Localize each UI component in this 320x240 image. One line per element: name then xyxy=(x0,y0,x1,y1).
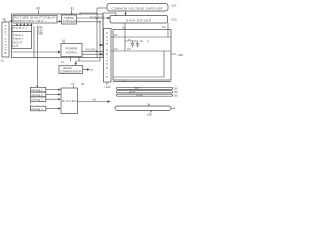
arrowhead gd upper branch xyxy=(101,44,104,46)
svg-text:R.A.B.C.I: R.A.B.C.I xyxy=(13,26,27,30)
svg-text:Vd: Vd xyxy=(93,97,97,101)
wire bus vertical x97 xyxy=(96,8,98,58)
svg-text:LUT: LUT xyxy=(13,44,19,48)
wire ps bottom stub a xyxy=(69,57,71,62)
gate driver box 140 xyxy=(104,29,112,83)
svg-text:GATE DRIVER IC: GATE DRIVER IC xyxy=(105,32,109,78)
wire bus vertical x103 xyxy=(102,13,104,29)
wire host to unit xyxy=(9,20,12,22)
junction dot 3 xyxy=(96,17,98,19)
arrowhead cvs to dd xyxy=(124,13,126,15)
svg-text:D1: D1 xyxy=(122,25,126,29)
outer timing controller board box xyxy=(12,14,104,58)
Dm line xyxy=(167,23,169,30)
driving n box xyxy=(31,106,46,111)
pixel tft xyxy=(125,40,133,42)
junction dot xyxy=(96,51,98,53)
power supply box 16 xyxy=(61,44,82,57)
pixel cap cst xyxy=(137,41,139,44)
svg-text:Driving 2: Driving 2 xyxy=(32,93,43,97)
timing controller box 41 xyxy=(62,15,77,24)
data line Dm inside xyxy=(167,30,169,38)
leader 70 xyxy=(73,86,75,89)
svg-text:SRC: SRC xyxy=(135,87,140,90)
svg-text:70: 70 xyxy=(71,82,75,86)
svg-text:~130: ~130 xyxy=(170,18,177,22)
arrowhead compensator out xyxy=(87,68,90,71)
svg-text:~140: ~140 xyxy=(104,85,111,89)
leader 20 xyxy=(4,20,6,22)
svg-text:Vc: Vc xyxy=(90,68,94,72)
wire ps bottom stub b xyxy=(78,57,80,62)
wire driving-n to summer xyxy=(46,108,60,110)
host system box 10 xyxy=(2,22,9,57)
wire to compensator xyxy=(76,61,100,65)
svg-text:41: 41 xyxy=(71,6,75,10)
picture quality improving unit box 4a xyxy=(13,15,57,23)
summer out arrow xyxy=(78,101,110,103)
driving 2 box xyxy=(31,92,46,97)
wire cvs to data driver xyxy=(125,11,127,15)
svg-text:20: 20 xyxy=(3,17,7,21)
wire h13 over to gate driver col xyxy=(103,12,116,14)
summer box 70 xyxy=(61,88,78,114)
svg-text:161: 161 xyxy=(174,87,179,91)
D1 line xyxy=(124,23,126,30)
svg-text:GATE: GATE xyxy=(136,94,143,97)
arrowheads driving to summer xyxy=(58,89,61,91)
svg-text:Driving 1: Driving 1 xyxy=(32,88,43,92)
panel box 150 xyxy=(113,30,171,81)
bar 3 xyxy=(117,94,173,96)
svg-text:CONTROLLER: CONTROLLER xyxy=(62,20,76,24)
svg-text:C0b: C0b xyxy=(38,34,43,36)
common voltage supplier box 120 xyxy=(107,4,168,12)
svg-text:P: P xyxy=(148,40,150,44)
svg-text:Driving n: Driving n xyxy=(32,107,43,111)
arrowhead summer out xyxy=(108,100,111,103)
arrowhead into driving1 top xyxy=(36,86,38,88)
compensator out xyxy=(83,69,88,71)
wire memory right vertical A xyxy=(33,26,35,58)
svg-text:16: 16 xyxy=(62,38,66,42)
leader 16 to power supply xyxy=(63,42,65,44)
gate line G2 xyxy=(111,50,171,52)
svg-text:G1: G1 xyxy=(114,33,118,37)
driving 3 box xyxy=(31,97,46,102)
data line D1 inside xyxy=(124,30,126,52)
pixel cap clc xyxy=(132,41,134,44)
svg-text:DATA DRIVER: DATA DRIVER xyxy=(126,18,152,22)
svg-text:SUPPLY: SUPPLY xyxy=(66,50,78,54)
leader 190 tick xyxy=(148,104,150,107)
leader 41 xyxy=(70,10,73,15)
svg-text:RGB,DCS: RGB,DCS xyxy=(90,16,104,20)
svg-text:17: 17 xyxy=(61,60,65,64)
svg-text:163: 163 xyxy=(174,93,179,97)
svg-text:DATA: DATA xyxy=(129,91,136,94)
svg-text:HOST SYSTEM: HOST SYSTEM xyxy=(3,25,7,55)
svg-text:40: 40 xyxy=(36,6,40,10)
data driver box 130 xyxy=(110,16,168,24)
svg-text:IMPROVING UNIT—: IMPROVING UNIT— xyxy=(14,19,48,23)
arrowhead into compensator xyxy=(75,63,77,66)
wire tc lower bus xyxy=(77,21,101,23)
svg-text:60: 60 xyxy=(81,82,85,86)
svg-text:BUFFER: BUFFER xyxy=(62,99,77,103)
inner panel line bottom xyxy=(113,76,164,78)
svg-text:Driving 3: Driving 3 xyxy=(32,98,43,102)
wire ps out upper xyxy=(82,50,103,52)
arrowhead ps to gate driver xyxy=(100,53,103,55)
arrowhead into unit xyxy=(11,20,13,22)
wire memory right vertical B down to driving xyxy=(36,26,38,87)
svg-text:VGH,VGL: VGH,VGL xyxy=(85,48,97,52)
arrowhead into data driver xyxy=(107,17,110,19)
svg-text:190: 190 xyxy=(147,113,152,117)
wire tc to cvs horizontal xyxy=(80,13,97,15)
bottom long bar 190 xyxy=(115,106,171,110)
svg-text:~120: ~120 xyxy=(170,4,177,8)
ellipsis dots xyxy=(29,101,32,104)
bar 1 xyxy=(117,87,173,89)
leader 190 below xyxy=(150,111,152,113)
wire unit to timing controller xyxy=(57,20,61,22)
bar right end mark xyxy=(171,107,175,109)
wire to cvs top xyxy=(97,7,107,9)
wire driving1 to summer xyxy=(46,89,60,91)
wire ps out lower to gate driver xyxy=(82,53,102,55)
svg-text:Clc: Clc xyxy=(140,39,144,43)
junction dot gd branch xyxy=(99,44,101,46)
bar 2 xyxy=(117,91,173,93)
svg-text:162: 162 xyxy=(174,90,179,94)
gate line G1 xyxy=(111,36,171,38)
svg-text:G2: G2 xyxy=(114,47,118,51)
svg-text:Dm: Dm xyxy=(162,25,167,29)
compensator box 17 xyxy=(59,66,83,74)
svg-text:COMPENSATOR: COMPENSATOR xyxy=(60,70,82,74)
inner panel line right xyxy=(163,51,165,77)
leader 40 xyxy=(38,10,40,14)
memory box 4c xyxy=(12,26,32,49)
wire driving3 to summer xyxy=(46,98,60,100)
bottom strip under panel xyxy=(113,81,171,83)
wire drop into data driver top xyxy=(115,13,117,16)
wire into power supply xyxy=(12,51,59,53)
wire driving2 to summer xyxy=(46,93,60,95)
pixel top link xyxy=(133,40,138,42)
memory header divider xyxy=(12,30,32,32)
wire branch into gate driver upper xyxy=(100,44,102,46)
driving 1 box xyxy=(31,87,46,92)
down arrows unit to memory xyxy=(16,23,18,25)
svg-text:~150: ~150 xyxy=(177,53,184,57)
arrowhead into tc xyxy=(59,20,62,22)
arrowhead into power supply xyxy=(58,51,61,54)
wire bus vertical x100 xyxy=(99,22,101,61)
arrowheads memory xyxy=(16,24,18,26)
junction dot 2 xyxy=(99,21,101,23)
svg-text:COMMON VOLTAGE SUPPLIER: COMMON VOLTAGE SUPPLIER xyxy=(112,7,164,11)
svg-text:10: 10 xyxy=(1,59,5,63)
leader 150 xyxy=(171,53,176,55)
leader 140 tick xyxy=(106,82,109,85)
wire tc to data driver xyxy=(77,17,109,19)
svg-text:Vst: Vst xyxy=(127,47,131,51)
